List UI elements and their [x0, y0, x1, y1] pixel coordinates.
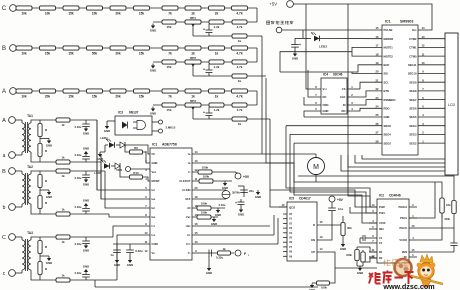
resistor RC8 1k	[185, 6, 201, 16]
wires 93C46 data to SM9903	[347, 82, 382, 111]
svg-text:GND: GND	[83, 183, 89, 187]
svg-text:INH: INH	[379, 227, 384, 231]
resistor RA12 1.2k	[209, 103, 224, 112]
wire sub-row C	[153, 21, 257, 23]
svg-text:IC1: IC1	[152, 143, 157, 147]
capacitor C23 0.33u electrolytic	[235, 199, 244, 217]
svg-text:14: 14	[320, 247, 323, 251]
svg-text:GND: GND	[150, 29, 156, 33]
svg-text:12: 12	[145, 249, 148, 253]
svg-text:GND: GND	[46, 261, 52, 265]
svg-text:SEG11: SEG11	[408, 63, 417, 67]
svg-text:20k: 20k	[115, 51, 121, 55]
svg-text:R10: R10	[133, 171, 139, 175]
svg-text:7k: 7k	[168, 51, 172, 55]
svg-text:SDO2: SDO2	[384, 141, 392, 145]
svg-text:10k: 10k	[21, 11, 27, 15]
ground sub-row A	[150, 107, 156, 116]
svg-text:GND: GND	[323, 109, 329, 113]
wire pin12 100k +5V	[192, 166, 236, 175]
wire phase input to PULSE	[282, 29, 382, 31]
wire bus C vertical	[261, 36, 263, 154]
svg-text:16: 16	[376, 35, 379, 39]
svg-text:ORG: ORG	[323, 103, 329, 107]
resistor RCs2 1k	[56, 274, 70, 283]
ground for C10	[292, 52, 298, 61]
capacitor CB1 electrolytic	[203, 64, 213, 76]
svg-text:F: F	[244, 252, 246, 256]
svg-text:15: 15	[376, 26, 379, 30]
node opto outputs	[152, 120, 176, 133]
watermark url	[382, 282, 434, 290]
svg-text:0.33u: 0.33u	[75, 271, 82, 275]
svg-text:BCK: BCK	[384, 63, 390, 67]
svg-text:1.2k: 1.2k	[214, 25, 220, 29]
svg-text:R2: R2	[379, 256, 383, 260]
svg-text:4.7k: 4.7k	[236, 94, 242, 98]
svg-text:1.2k: 1.2k	[214, 65, 220, 69]
resistor RB14 1k	[232, 74, 247, 83]
ground sub-row B	[150, 64, 156, 73]
resistor R30 30k	[341, 223, 352, 236]
wire bus B vertical	[266, 78, 294, 182]
resistor RC7 7k	[162, 6, 178, 16]
wire PHI2 to bus	[270, 190, 369, 207]
svg-text:15: 15	[195, 231, 198, 235]
wires SM9903 right pins to LCD	[418, 39, 445, 143]
svg-text:GND: GND	[150, 69, 156, 73]
svg-text:GND: GND	[238, 213, 244, 217]
capacitor C31 0.33u	[126, 244, 143, 267]
svg-text:20k: 20k	[45, 94, 51, 98]
svg-text:CTM0: CTM0	[409, 54, 417, 58]
watermark text weiku	[369, 271, 414, 285]
resistor RA14 1k	[232, 117, 247, 126]
watermark logo circle	[383, 259, 411, 276]
op-amp U5 IC5 CD4017 decade counter	[279, 197, 323, 262]
resistor RA8 1k	[185, 89, 201, 99]
wire right edge loop	[298, 176, 454, 200]
svg-text:1k: 1k	[215, 51, 219, 55]
resistor RB13 4.7k	[232, 60, 247, 69]
svg-text:20k: 20k	[115, 11, 121, 15]
node c line terminal	[3, 270, 16, 277]
svg-text:CLKIN: CLKIN	[182, 188, 190, 192]
svg-text:1u: 1u	[110, 253, 114, 257]
svg-text:GND: GND	[83, 132, 89, 136]
svg-text:PULSE: PULSE	[384, 28, 393, 32]
node a line terminal	[3, 152, 16, 159]
resistor RAs1 1k	[56, 118, 70, 127]
svg-text:15k: 15k	[68, 94, 74, 98]
svg-text:1.2k: 1.2k	[214, 108, 220, 112]
svg-text:CS: CS	[342, 87, 346, 91]
capacitor CAf2 0.33u	[75, 147, 90, 163]
svg-text:LCD: LCD	[448, 103, 456, 107]
ground sub-row C	[150, 24, 156, 33]
resistor divider RCa	[38, 237, 48, 254]
svg-text:GND: GND	[127, 263, 133, 267]
svg-text:15: 15	[320, 220, 323, 224]
svg-text:GND: GND	[114, 263, 120, 267]
svg-text:15k: 15k	[139, 51, 145, 55]
svg-text:ZEN: ZEN	[402, 250, 407, 254]
svg-text:93C46: 93C46	[333, 73, 343, 77]
resistor RC14 1k	[232, 34, 247, 43]
svg-text:0.33u: 0.33u	[135, 249, 142, 253]
node +5V CD4017	[329, 196, 344, 208]
svg-text:6N137: 6N137	[129, 111, 139, 115]
capacitor CA1 electrolytic	[203, 107, 213, 119]
svg-text:3579k: 3579k	[232, 191, 240, 195]
svg-text:SEG9: SEG9	[409, 80, 417, 84]
capacitor C30 1u	[110, 244, 120, 267]
wire main chain row A	[16, 90, 257, 92]
crystal Y1 3.58MHz	[192, 190, 240, 199]
svg-text:C: C	[2, 6, 7, 12]
wire PHCO right	[417, 227, 454, 229]
svg-text:SEG10: SEG10	[408, 72, 417, 76]
svg-text:GND: GND	[211, 222, 217, 226]
op-amp U3 IC1 ADE7758 energy metering IC	[145, 143, 198, 261]
ground divider B	[40, 188, 52, 200]
resistor R23 100k A0	[192, 211, 218, 227]
transformer TA1	[15, 114, 34, 162]
svg-text:CLK: CLK	[340, 95, 346, 99]
resistor RC3 15k	[63, 6, 79, 16]
wires ADE7758 voltage pins from bus	[192, 215, 278, 244]
svg-text:GND: GND	[46, 195, 52, 199]
capacitor CC1 electrolytic	[203, 24, 213, 36]
svg-text:+: +	[203, 28, 205, 32]
resistor RB10 4.7k	[232, 46, 248, 56]
svg-text:10k: 10k	[92, 11, 98, 15]
svg-text:CD4017: CD4017	[299, 197, 311, 201]
svg-text:1k: 1k	[238, 122, 242, 126]
svg-text:100k: 100k	[201, 211, 208, 215]
svg-text:MOTE2: MOTE2	[384, 54, 394, 58]
svg-text:CD4046: CD4046	[389, 194, 401, 198]
svg-text:13: 13	[320, 235, 323, 239]
resistor RA10 4.7k	[232, 89, 248, 99]
resistor RB11 15k	[162, 60, 176, 69]
capacitor C20 22u	[238, 186, 254, 197]
svg-text:15k: 15k	[166, 25, 171, 29]
svg-text:IC5: IC5	[289, 197, 294, 201]
resistor RC5 20k	[110, 6, 126, 16]
resistor RB4 50k	[87, 46, 103, 56]
svg-text:CF: CF	[152, 152, 156, 156]
svg-text:PHI1: PHI1	[379, 211, 385, 215]
svg-text:GND: GND	[104, 129, 110, 133]
svg-text:15k: 15k	[166, 65, 171, 69]
svg-text:GND: GND	[83, 199, 89, 203]
wire a secondary bottom	[34, 162, 150, 199]
node +5V terminal near ADE	[235, 172, 250, 179]
svg-text:VCOI: VCOI	[379, 221, 386, 225]
svg-text:15k: 15k	[45, 51, 51, 55]
svg-text:+: +	[299, 43, 301, 47]
resistor RB6 15k	[134, 46, 150, 56]
node F1 terminal	[235, 250, 250, 257]
node power phase input terminal	[266, 21, 293, 33]
wire SDO bus down-left	[286, 126, 382, 223]
svg-text:4.7k: 4.7k	[237, 25, 243, 29]
svg-text:IC1: IC1	[385, 20, 391, 24]
resistor RB2 15k	[40, 46, 56, 56]
svg-text:IC2: IC2	[379, 194, 384, 198]
svg-text:SDO6: SDO6	[384, 124, 392, 128]
ground crystal	[255, 190, 261, 199]
resistor R9	[125, 145, 150, 163]
resistor R32 500k vertical	[361, 250, 376, 266]
svg-text:TA3: TA3	[27, 231, 33, 235]
wire Vn output	[192, 252, 234, 254]
LED3 indicator	[303, 32, 382, 48]
resistor R24 1k	[218, 247, 231, 255]
svg-text:2k: 2k	[215, 11, 219, 15]
svg-text:C1: C1	[379, 241, 383, 245]
resistor RB5 20k	[110, 46, 126, 56]
wire B secondary top	[34, 171, 150, 208]
svg-text:100k: 100k	[444, 217, 450, 221]
svg-text:20k: 20k	[115, 94, 121, 98]
svg-text:PHCO: PHCO	[400, 226, 408, 230]
trimmer RP3	[185, 99, 201, 119]
node +5V supply terminal	[269, 1, 293, 8]
svg-text:CTM1: CTM1	[409, 46, 417, 50]
svg-text:10: 10	[195, 240, 198, 244]
svg-text:ERROR: ERROR	[384, 37, 394, 41]
svg-text:IC4: IC4	[323, 73, 328, 77]
svg-text:PSO1: PSO1	[400, 216, 407, 220]
ground LED4	[97, 145, 108, 161]
wire junction to LED row	[302, 30, 304, 38]
svg-text:7k: 7k	[168, 94, 172, 98]
wires 93C46 left pins	[304, 70, 321, 117]
resistor RB1 10k	[16, 46, 32, 56]
svg-text:SDO4: SDO4	[384, 133, 392, 137]
svg-text:28: 28	[376, 139, 379, 143]
resistor RC13 4.7k	[232, 20, 247, 29]
resistor RBs2 1k	[56, 208, 70, 216]
svg-text:B: B	[2, 46, 6, 52]
svg-text:SEG2: SEG2	[409, 141, 417, 145]
svg-text:TA1: TA1	[27, 114, 33, 118]
resistor RB8 1k	[185, 46, 201, 56]
resistor R22 100k SCF	[192, 202, 226, 218]
resistor R33 100k bottom	[309, 281, 330, 290]
svg-text:IC3: IC3	[118, 111, 123, 115]
LED4 with zener ZD1	[100, 136, 150, 154]
wire c secondary bottom	[34, 235, 150, 280]
capacitor C41 timing	[360, 235, 369, 243]
svg-text:+: +	[203, 68, 205, 72]
wire 93C46 GND to SM9903 GND pin25	[304, 116, 382, 118]
svg-text:50k: 50k	[92, 51, 98, 55]
resistor RC6 15k	[134, 6, 150, 16]
resistor RB3 15k	[63, 46, 79, 56]
svg-text:2.MK15: 2.MK15	[166, 126, 176, 130]
transformer TA2	[15, 165, 34, 214]
svg-text:15k: 15k	[68, 51, 74, 55]
svg-text:R9: R9	[134, 146, 138, 150]
op-amp U1 IC1 SM9903 metering IC	[376, 20, 425, 156]
ground R31 R32	[357, 266, 363, 275]
svg-text:PHO13: PHO13	[398, 205, 407, 209]
ground Vn	[206, 256, 212, 275]
resistor RA11 15k	[162, 103, 176, 112]
svg-text:SCF: SCF	[185, 197, 191, 201]
wire motor bottom	[294, 175, 442, 219]
svg-text:GND: GND	[152, 161, 158, 165]
wire chain loop right B	[256, 48, 258, 62]
svg-text:0.33u: 0.33u	[75, 242, 82, 246]
svg-text:GND: GND	[46, 144, 52, 148]
LED5 with zener ZD2	[94, 160, 120, 175]
svg-text:1k: 1k	[61, 208, 65, 212]
wire sub-row A	[153, 104, 257, 106]
svg-text:PHI2: PHI2	[379, 205, 385, 209]
resistor RA5 20k	[110, 89, 126, 99]
svg-text:100k: 100k	[202, 166, 209, 170]
svg-text:GND: GND	[83, 147, 89, 151]
svg-text:+: +	[203, 111, 205, 115]
svg-text:15k: 15k	[139, 11, 145, 15]
wire cap row to COM	[113, 243, 150, 245]
resistor RB12 1.2k	[209, 60, 224, 69]
resistor RCs1 1k	[56, 235, 70, 244]
svg-text:SEG7: SEG7	[409, 98, 417, 102]
wires SM9903 left pin stubs	[280, 47, 382, 73]
svg-text:1k: 1k	[61, 240, 65, 244]
svg-text:SIS: SIS	[384, 72, 389, 76]
motor M	[308, 158, 325, 175]
capacitor C21 0.33u	[209, 250, 223, 260]
capacitor C10 electrolytic filter	[291, 38, 303, 52]
svg-text:SCL: SCL	[384, 80, 390, 84]
svg-text:GND: GND	[206, 271, 212, 275]
svg-text:1k: 1k	[215, 94, 219, 98]
resistor divider RAa	[38, 120, 48, 137]
svg-text:+: +	[235, 201, 237, 205]
svg-text:GND: GND	[357, 271, 363, 275]
svg-text:1k: 1k	[61, 274, 65, 278]
ground R30	[340, 236, 346, 252]
svg-text:22u: 22u	[249, 189, 254, 193]
svg-text:CTM2: CTM2	[409, 37, 417, 41]
resistor RB7 7k	[162, 46, 178, 56]
svg-text:DO: DO	[341, 109, 345, 113]
svg-text:CLKOUT: CLKOUT	[179, 179, 191, 183]
svg-text:100k: 100k	[203, 175, 210, 179]
svg-text:1k: 1k	[191, 51, 195, 55]
capacitor CCf1 0.33u	[75, 237, 90, 253]
svg-text:100k: 100k	[321, 286, 327, 290]
wire bottom bus	[95, 280, 318, 287]
svg-text:+5V: +5V	[243, 175, 250, 179]
svg-text:RP2: RP2	[190, 56, 196, 60]
svg-text:4.7k: 4.7k	[237, 108, 243, 112]
svg-text:SEG6: SEG6	[409, 107, 417, 111]
svg-text:RSMBDO: RSMBDO	[384, 98, 396, 102]
svg-text:BTK: BTK	[384, 89, 390, 93]
resistor RA7 7k	[162, 89, 178, 99]
wire bus A vertical	[270, 119, 287, 207]
svg-text:LED3: LED3	[319, 45, 327, 49]
resistor R31 100k vertical	[346, 247, 359, 266]
wire b secondary bottom	[34, 214, 150, 217]
wire B cap row	[193, 75, 266, 77]
svg-text:RP1: RP1	[190, 16, 196, 20]
svg-text:15k: 15k	[139, 94, 145, 98]
svg-text:SEG5: SEG5	[409, 115, 417, 119]
svg-text:B: B	[2, 169, 6, 175]
wire VCOO loop	[417, 214, 442, 241]
svg-text:100k: 100k	[346, 253, 352, 257]
resistor R34 10k vertical	[440, 198, 451, 218]
capacitor C42 right	[450, 228, 457, 252]
ground divider A	[40, 137, 52, 148]
svg-text:A0: A0	[187, 206, 191, 210]
capacitor C40 0.1u	[328, 207, 343, 214]
node C line terminal	[2, 234, 15, 241]
svg-text:RP3: RP3	[190, 99, 196, 103]
svg-text:DI: DI	[343, 103, 346, 107]
wire CP pin	[317, 252, 377, 283]
wire +5V rail	[293, 4, 432, 30]
svg-text:GND: GND	[215, 213, 221, 217]
wire A cap row	[193, 118, 270, 120]
node A phase input terminal	[2, 88, 16, 96]
svg-text:+5V: +5V	[269, 2, 277, 7]
svg-text:0.33u: 0.33u	[75, 205, 82, 209]
svg-text:10k: 10k	[21, 94, 27, 98]
svg-text:GND: GND	[384, 115, 390, 119]
wires ADE7758 right pins	[192, 154, 316, 163]
ground opto input	[104, 121, 115, 133]
svg-text:1k: 1k	[238, 79, 242, 83]
svg-text:GND: GND	[222, 186, 228, 190]
svg-text:12: 12	[195, 168, 198, 172]
wire +5V drop to 93C46 Vcc	[306, 4, 321, 89]
svg-text:16: 16	[195, 222, 198, 226]
svg-text:R: R	[313, 223, 315, 227]
svg-text:SEG8: SEG8	[409, 89, 417, 93]
svg-text:SEG3: SEG3	[409, 133, 417, 137]
svg-text:COM: COM	[152, 242, 159, 246]
trimmer RP2	[185, 56, 201, 76]
svg-text:VCOO: VCOO	[399, 238, 407, 242]
svg-text:RDO: RDO	[384, 107, 390, 111]
wire +5V drop bus to CD4046	[348, 4, 377, 207]
svg-text:GND: GND	[255, 195, 261, 199]
svg-text:GND: GND	[83, 265, 89, 269]
svg-text:A: A	[2, 118, 6, 124]
svg-text:CP: CP	[311, 250, 315, 254]
resistor RBs1 1k	[56, 169, 70, 178]
resistor RB9 1k	[209, 46, 225, 56]
resistor RAs2 1k	[56, 156, 70, 164]
svg-text:1k: 1k	[222, 247, 226, 251]
resistor divider RAb	[38, 144, 48, 163]
capacitor CBf1 0.33u	[75, 171, 90, 187]
svg-text:C1: C1	[379, 236, 383, 240]
wire A secondary top	[34, 120, 150, 190]
wire chain loop right A	[256, 91, 258, 105]
resistor RA2 20k	[40, 89, 56, 99]
wire PHI1 to CD4017	[350, 207, 369, 213]
